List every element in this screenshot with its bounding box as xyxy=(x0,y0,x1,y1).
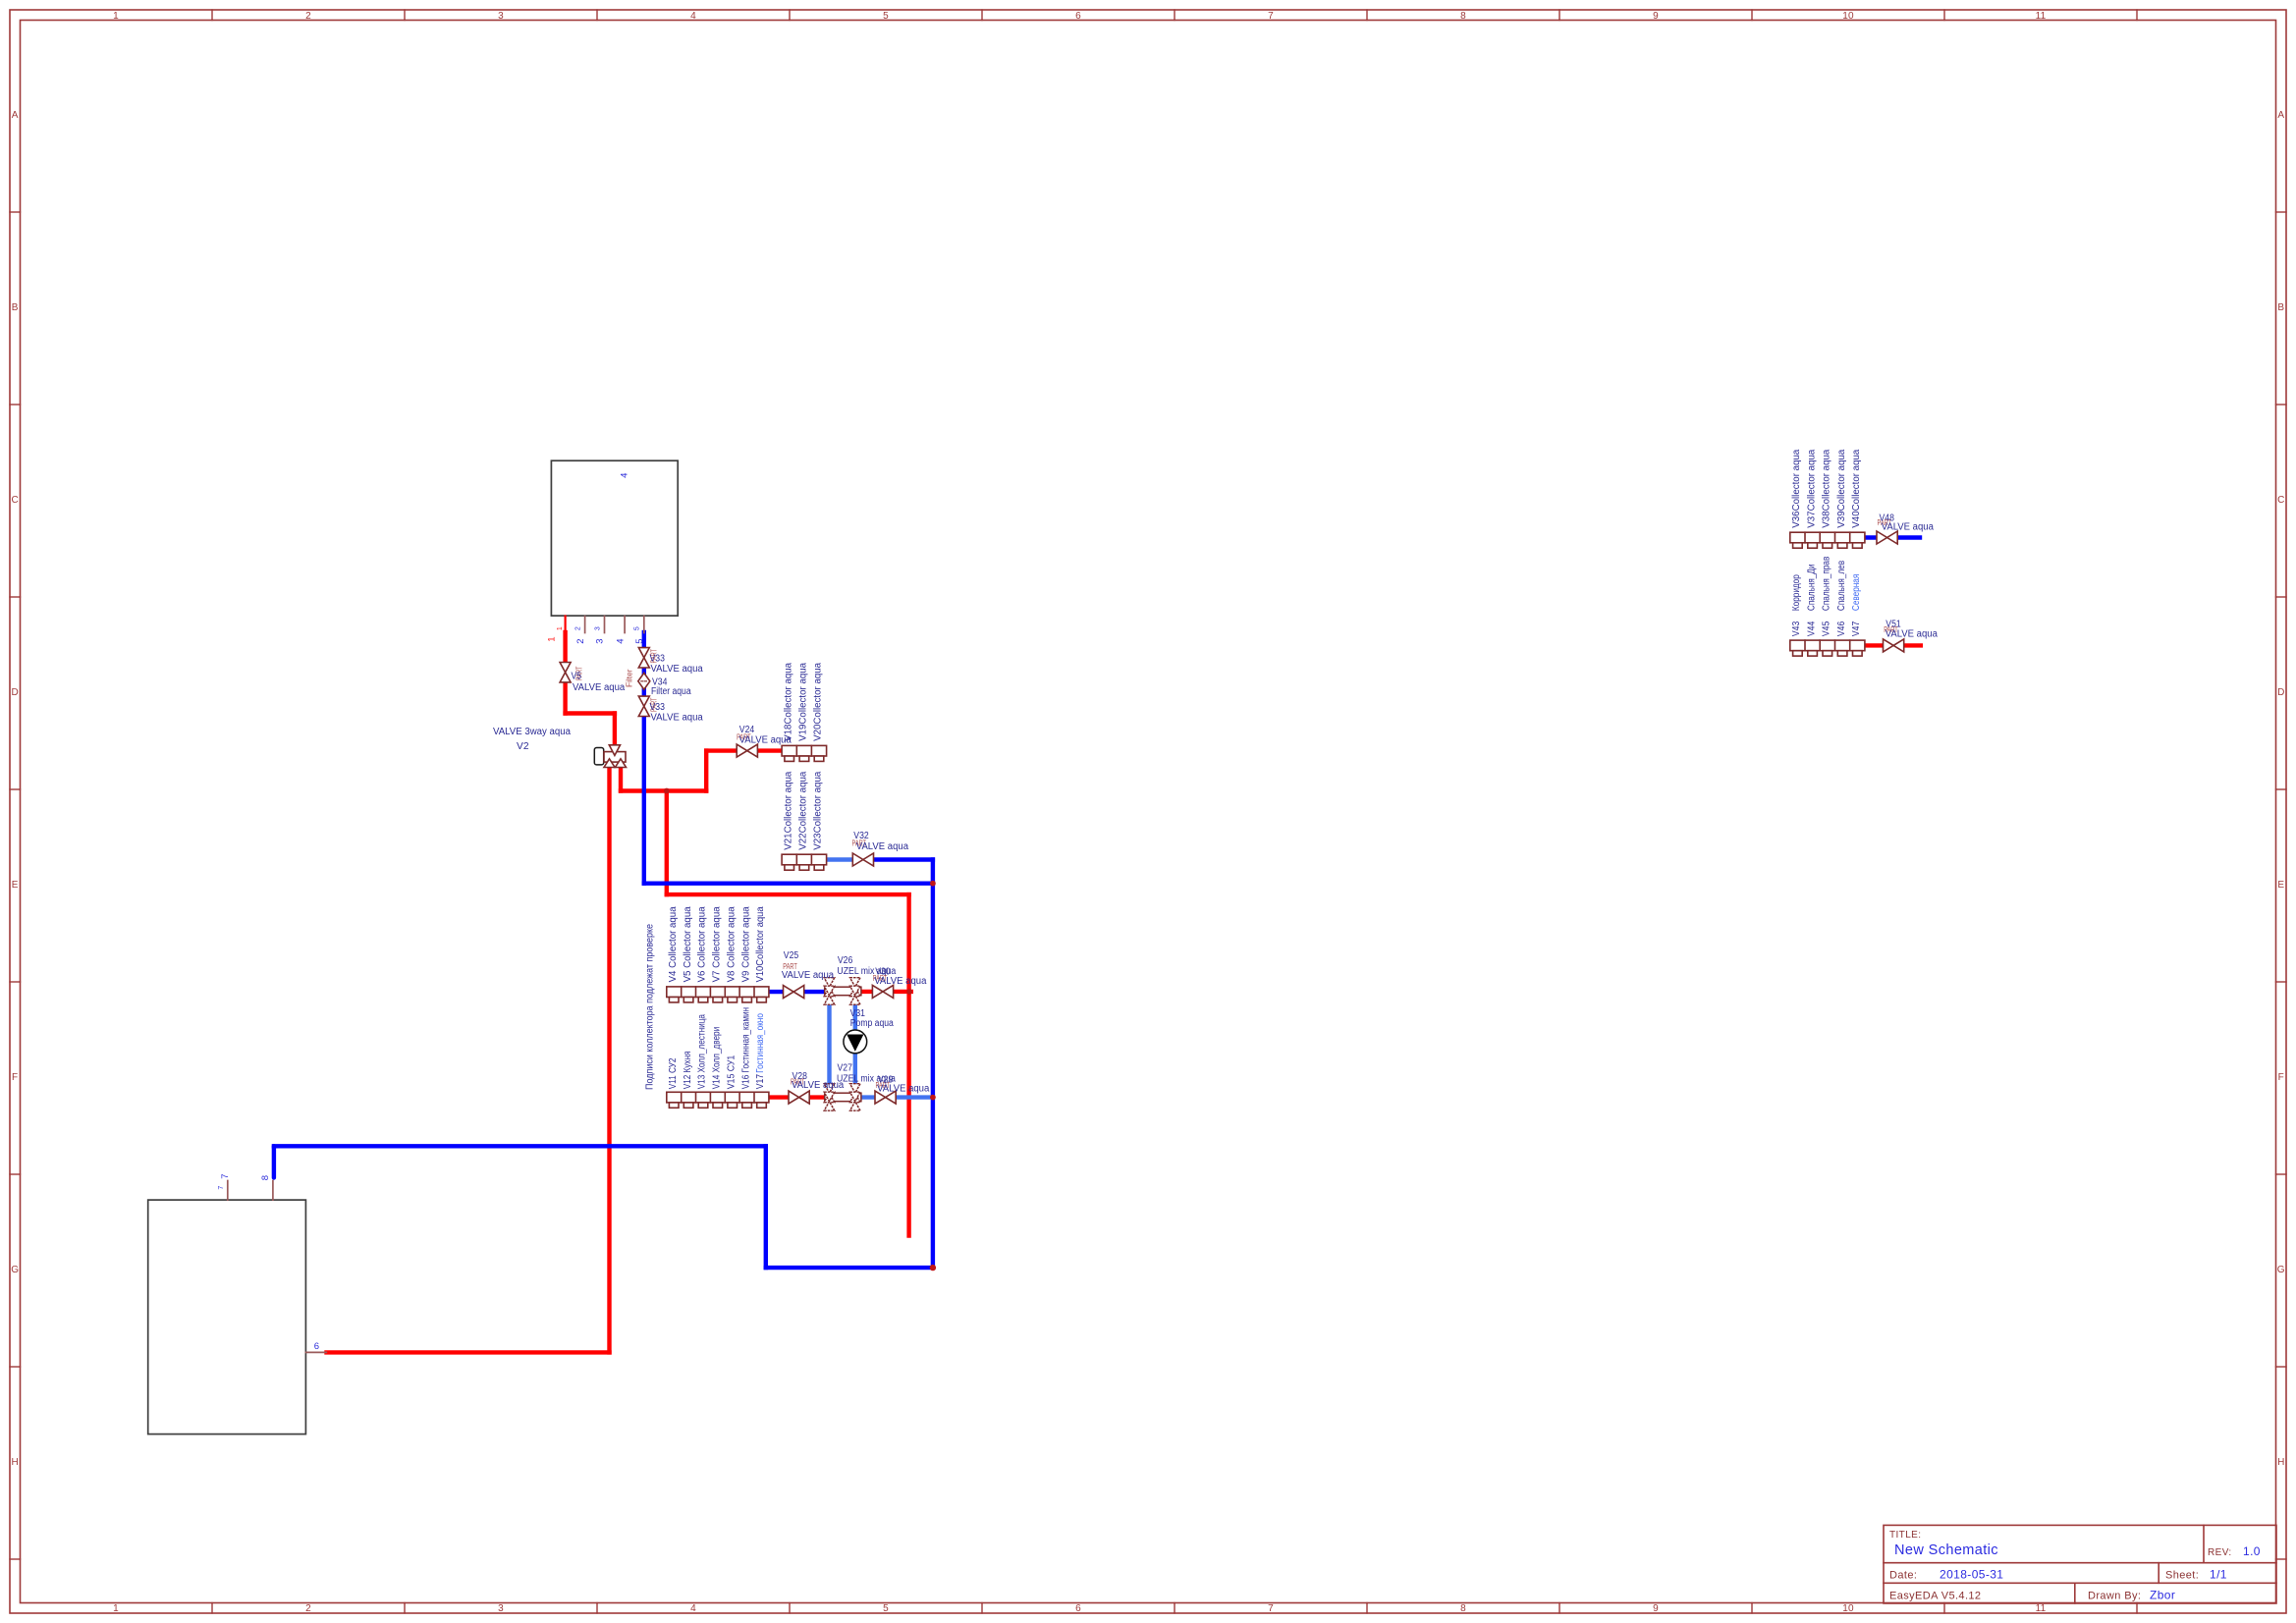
svg-text:8: 8 xyxy=(1460,1603,1466,1614)
svg-text:Спальня_лев: Спальня_лев xyxy=(1836,561,1847,611)
svg-text:New Schematic: New Schematic xyxy=(1894,1542,1998,1558)
svg-text:V45: V45 xyxy=(1822,621,1832,636)
svg-text:Zbor: Zbor xyxy=(2150,1589,2175,1602)
svg-text:V36Collector aqua: V36Collector aqua xyxy=(1791,449,1802,527)
svg-text:VALVE aqua: VALVE aqua xyxy=(874,976,927,987)
svg-text:VALVE aqua: VALVE aqua xyxy=(1886,628,1939,639)
svg-text:D: D xyxy=(11,687,18,698)
svg-text:Спальня_прав: Спальня_прав xyxy=(1822,557,1832,611)
svg-text:VALVE aqua: VALVE aqua xyxy=(856,841,909,852)
svg-text:V46: V46 xyxy=(1836,621,1847,636)
svg-text:9: 9 xyxy=(1653,1603,1659,1614)
svg-text:Гостинная_окно: Гостинная_окно xyxy=(755,1013,766,1073)
svg-text:EasyEDA V5.4.12: EasyEDA V5.4.12 xyxy=(1889,1591,1981,1602)
svg-text:3: 3 xyxy=(498,1603,504,1614)
svg-text:Filter aqua: Filter aqua xyxy=(651,686,691,697)
svg-text:11: 11 xyxy=(2036,11,2047,22)
svg-text:4: 4 xyxy=(690,11,696,22)
svg-text:V22Collector aqua: V22Collector aqua xyxy=(798,771,809,849)
svg-text:1.0: 1.0 xyxy=(2243,1544,2261,1558)
svg-text:B: B xyxy=(12,302,19,313)
svg-text:8: 8 xyxy=(1460,11,1466,22)
svg-text:V32: V32 xyxy=(853,831,869,841)
svg-text:V2: V2 xyxy=(517,741,529,752)
svg-text:V17: V17 xyxy=(755,1074,766,1090)
svg-text:9: 9 xyxy=(1653,11,1659,22)
svg-text:C: C xyxy=(2277,495,2284,506)
svg-text:V9 Collector aqua: V9 Collector aqua xyxy=(740,906,751,982)
svg-text:7: 7 xyxy=(1268,1603,1274,1614)
svg-text:V13 Холл_лестница: V13 Холл_лестница xyxy=(697,1014,708,1090)
svg-text:Спальня_Ди: Спальня_Ди xyxy=(1806,565,1817,612)
svg-text:A: A xyxy=(12,110,19,121)
svg-text:6: 6 xyxy=(1075,11,1081,22)
svg-text:7: 7 xyxy=(220,1173,231,1179)
svg-text:V10Collector aqua: V10Collector aqua xyxy=(755,906,766,982)
svg-text:8: 8 xyxy=(260,1175,271,1181)
svg-text:3: 3 xyxy=(594,626,601,630)
svg-text:4: 4 xyxy=(690,1603,696,1614)
svg-text:V14 Холл_двери: V14 Холл_двери xyxy=(712,1027,723,1090)
svg-text:4: 4 xyxy=(615,638,626,644)
svg-text:1: 1 xyxy=(557,626,564,630)
svg-text:V44: V44 xyxy=(1806,621,1817,636)
svg-text:H: H xyxy=(11,1457,18,1468)
svg-text:F: F xyxy=(2278,1072,2284,1083)
svg-text:Filter: Filter xyxy=(626,669,634,687)
svg-text:1: 1 xyxy=(113,1603,119,1614)
svg-text:1/1: 1/1 xyxy=(2210,1568,2227,1582)
svg-text:V26: V26 xyxy=(838,955,853,966)
svg-text:5: 5 xyxy=(883,11,889,22)
svg-text:3: 3 xyxy=(595,638,606,644)
svg-text:V40Collector aqua: V40Collector aqua xyxy=(1851,449,1862,527)
svg-text:7: 7 xyxy=(1268,11,1274,22)
svg-text:VALVE aqua: VALVE aqua xyxy=(877,1084,930,1095)
svg-text:5: 5 xyxy=(883,1603,889,1614)
svg-text:V47: V47 xyxy=(1851,621,1862,636)
svg-text:V15 СУ1: V15 СУ1 xyxy=(726,1055,737,1089)
svg-text:V23Collector aqua: V23Collector aqua xyxy=(813,771,824,849)
svg-text:V33: V33 xyxy=(650,654,666,665)
svg-text:V27: V27 xyxy=(838,1063,853,1074)
svg-text:REV:: REV: xyxy=(2208,1547,2232,1558)
svg-text:V18Collector aqua: V18Collector aqua xyxy=(783,662,793,740)
svg-text:11: 11 xyxy=(2036,1603,2047,1614)
svg-text:6: 6 xyxy=(1075,1603,1081,1614)
svg-text:H: H xyxy=(2277,1457,2284,1468)
svg-text:TITLE:: TITLE: xyxy=(1889,1530,1921,1541)
svg-text:A: A xyxy=(2277,110,2284,121)
svg-text:V38Collector aqua: V38Collector aqua xyxy=(1822,449,1832,527)
svg-text:V25: V25 xyxy=(784,950,799,961)
svg-text:Sheet:: Sheet: xyxy=(2165,1570,2199,1582)
svg-text:Корридор: Корридор xyxy=(1791,574,1802,611)
svg-text:V8 Collector aqua: V8 Collector aqua xyxy=(726,906,737,982)
svg-text:G: G xyxy=(2277,1265,2285,1275)
svg-text:B: B xyxy=(2277,302,2284,313)
svg-text:VALVE aqua: VALVE aqua xyxy=(792,1080,845,1091)
svg-text:V5: V5 xyxy=(572,672,582,682)
svg-text:V19Collector aqua: V19Collector aqua xyxy=(798,662,809,740)
svg-text:V43: V43 xyxy=(1791,621,1802,636)
svg-text:V33: V33 xyxy=(650,702,666,713)
svg-text:VALVE aqua: VALVE aqua xyxy=(651,664,704,675)
svg-text:V24: V24 xyxy=(739,725,755,735)
svg-text:2: 2 xyxy=(305,11,311,22)
svg-text:VALVE aqua: VALVE aqua xyxy=(1882,521,1935,532)
svg-text:Северная: Северная xyxy=(1851,574,1862,611)
svg-text:Date:: Date: xyxy=(1889,1570,1917,1582)
svg-text:2: 2 xyxy=(574,626,581,630)
svg-text:D: D xyxy=(2277,687,2284,698)
svg-text:V7 Collector aqua: V7 Collector aqua xyxy=(712,906,723,982)
svg-text:2: 2 xyxy=(305,1603,311,1614)
svg-text:V11 СУ2: V11 СУ2 xyxy=(668,1057,679,1089)
svg-text:V20Collector aqua: V20Collector aqua xyxy=(813,662,824,740)
svg-text:Pomp aqua: Pomp aqua xyxy=(850,1018,894,1029)
svg-text:V21Collector aqua: V21Collector aqua xyxy=(783,771,793,849)
svg-text:VALVE aqua: VALVE aqua xyxy=(651,713,704,724)
svg-text:6: 6 xyxy=(314,1341,320,1352)
svg-text:10: 10 xyxy=(1842,1603,1854,1614)
svg-text:E: E xyxy=(12,880,19,891)
svg-text:V6 Collector aqua: V6 Collector aqua xyxy=(697,906,708,982)
svg-text:E: E xyxy=(2277,880,2284,891)
svg-text:V37Collector aqua: V37Collector aqua xyxy=(1806,449,1817,527)
svg-text:V16 Гостинная_камин: V16 Гостинная_камин xyxy=(740,1007,751,1089)
svg-text:1: 1 xyxy=(547,636,558,642)
svg-text:2018-05-31: 2018-05-31 xyxy=(1940,1568,2003,1582)
svg-text:F: F xyxy=(12,1072,18,1083)
svg-text:2: 2 xyxy=(575,638,586,644)
svg-text:4: 4 xyxy=(619,472,629,478)
svg-text:VALVE aqua: VALVE aqua xyxy=(782,970,835,981)
svg-text:5: 5 xyxy=(634,626,641,630)
svg-text:V5 Collector aqua: V5 Collector aqua xyxy=(683,906,693,982)
svg-text:10: 10 xyxy=(1842,11,1854,22)
svg-text:1: 1 xyxy=(113,11,119,22)
svg-text:V4 Collector aqua: V4 Collector aqua xyxy=(668,906,679,982)
svg-text:5: 5 xyxy=(634,638,645,644)
svg-text:3: 3 xyxy=(498,11,504,22)
svg-text:V12 Кухня: V12 Кухня xyxy=(683,1052,693,1090)
svg-text:Drawn By:: Drawn By: xyxy=(2088,1591,2141,1602)
svg-text:C: C xyxy=(11,495,18,506)
svg-text:VALVE aqua: VALVE aqua xyxy=(573,682,626,693)
svg-text:Подписи коллектора подлежат пр: Подписи коллектора подлежат проверке xyxy=(645,924,656,1090)
svg-text:7: 7 xyxy=(218,1185,225,1189)
svg-text:VALVE 3way aqua: VALVE 3way aqua xyxy=(493,727,571,737)
svg-text:G: G xyxy=(11,1265,19,1275)
svg-text:V39Collector aqua: V39Collector aqua xyxy=(1836,449,1847,527)
